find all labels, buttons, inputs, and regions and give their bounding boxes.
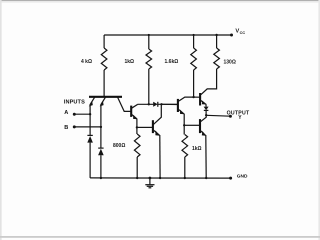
node junction Q3 emitter bbox=[183, 124, 185, 126]
wire output bbox=[206, 114, 230, 117]
node junction rail R3 bbox=[193, 34, 195, 36]
transistor Q3 darlington driver bbox=[178, 97, 194, 134]
node input A terminal bbox=[73, 113, 76, 116]
svg-text:4 kΩ: 4 kΩ bbox=[81, 59, 92, 65]
svg-text:INPUTS: INPUTS bbox=[64, 99, 85, 105]
node Vcc label bbox=[235, 29, 245, 36]
node junction N1 bbox=[160, 103, 162, 105]
resistor R1 4k bbox=[101, 35, 107, 96]
label input B bbox=[64, 125, 68, 131]
resistor R2 1k bbox=[146, 35, 152, 104]
svg-text:1kΩ: 1kΩ bbox=[192, 146, 202, 152]
label INPUTS bbox=[64, 99, 85, 105]
node junction B emitter bbox=[100, 126, 102, 128]
node output terminal bbox=[229, 115, 232, 118]
node junction ground symbol bbox=[149, 177, 152, 180]
node junction R5 ground bbox=[136, 177, 138, 179]
wire Q2 emitter to Q4 base bbox=[137, 126, 152, 128]
node junction rail R4 bbox=[215, 34, 217, 36]
node junction R6 ground bbox=[184, 177, 186, 179]
wire N1 to Q3 base bbox=[162, 103, 178, 105]
diode DA input clamp bbox=[87, 114, 93, 178]
node GND terminal bbox=[229, 177, 232, 180]
wire Q3 emitter to Q6 base bbox=[184, 124, 199, 126]
node junction Q6 emitter ground bbox=[205, 177, 207, 179]
node input B terminal bbox=[73, 125, 76, 128]
node junction R3 bottom bbox=[192, 96, 194, 98]
label OUTPUT bbox=[227, 111, 250, 117]
svg-text:A: A bbox=[64, 110, 68, 116]
transistor Q1 multi-emitter input bbox=[89, 97, 131, 127]
svg-text:GND: GND bbox=[237, 174, 248, 180]
ground bbox=[145, 178, 154, 188]
node Vcc terminal bbox=[230, 34, 233, 37]
wire input A bbox=[74, 113, 90, 115]
node junction rail R2 bbox=[148, 34, 150, 36]
diode D2 output bbox=[204, 107, 209, 116]
transistor Q5 output upper bbox=[200, 93, 206, 107]
label input A bbox=[64, 110, 68, 116]
transistor Q4 pull-down clamp bbox=[153, 104, 161, 178]
wire Vcc top rail bbox=[104, 34, 231, 36]
node junction Q4 emitter ground bbox=[159, 177, 161, 179]
transistor Q2 phase splitter bbox=[131, 104, 137, 134]
label 800Ohm bbox=[113, 143, 125, 149]
wire ground rail bbox=[90, 177, 231, 179]
svg-text:B: B bbox=[64, 125, 68, 131]
label 4 kOhm bbox=[81, 59, 92, 65]
svg-text:1.6kΩ: 1.6kΩ bbox=[165, 59, 179, 65]
wire Q2 collector node line bbox=[137, 103, 153, 105]
resistor R4 130 bbox=[201, 35, 220, 95]
diode DB input clamp bbox=[98, 127, 104, 178]
node junction R2 bottom bbox=[148, 103, 150, 105]
label 1kOhm lower bbox=[192, 146, 202, 152]
label 1.6kOhm bbox=[165, 59, 179, 65]
resistor R3 1.6k bbox=[191, 35, 197, 97]
svg-text:1kΩ: 1kΩ bbox=[125, 59, 135, 65]
label 1kOhm bbox=[125, 59, 135, 65]
label Y bbox=[238, 115, 242, 121]
resistor R5 800 bbox=[134, 134, 140, 178]
diode D1 series bbox=[153, 102, 178, 107]
svg-text:800Ω: 800Ω bbox=[113, 143, 125, 149]
wire input B bbox=[74, 126, 101, 128]
label 130Ohm bbox=[224, 60, 236, 66]
node junction Q2 emitter bbox=[136, 126, 138, 128]
svg-text:130Ω: 130Ω bbox=[224, 60, 236, 66]
transistor Q6 output pull-down bbox=[200, 115, 206, 178]
wire N3 to Q5 base bbox=[194, 96, 200, 98]
node junction A emitter bbox=[89, 113, 91, 115]
node junction DB ground bbox=[100, 177, 102, 179]
node junction output bbox=[205, 114, 207, 116]
resistor R6 1k bbox=[182, 135, 188, 179]
svg-text:CC: CC bbox=[240, 31, 246, 35]
label GND bbox=[237, 174, 248, 180]
